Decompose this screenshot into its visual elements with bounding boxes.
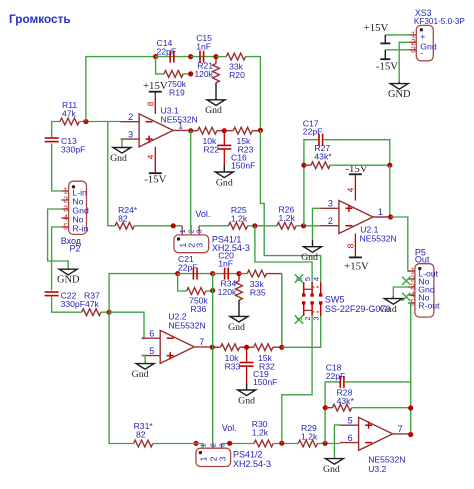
op-amp U3.2 [340,416,410,474]
svg-text:4: 4 [147,154,156,159]
wire U3.1 pin3 to gnd [121,139,123,147]
svg-text:+: + [420,31,425,41]
wire R20 to right bus [246,57,261,131]
svg-text:P2: P2 [70,244,81,254]
junction node S [244,345,249,350]
P2 pin 5 R-in [61,222,88,234]
junction node F [222,128,227,133]
capacitor C17 22pF [303,119,323,146]
junction node R [279,345,284,350]
junction node J [301,223,306,228]
wire node R to SW5 pin3 [282,315,321,347]
XS3 pin 1 + [410,30,426,42]
wire R25 to R26 [248,225,277,227]
junction node A [83,119,88,124]
svg-text:R36: R36 [191,304,207,314]
junction node X [323,405,328,410]
svg-text:47k: 47k [85,299,100,309]
junction node U [227,441,232,446]
wire R28 to right bus [352,407,411,409]
P2 pin 2 No [61,195,83,207]
junction node G [258,128,263,133]
svg-text:GND: GND [57,275,80,286]
capacitor C19 150nF [240,363,278,388]
svg-text:4: 4 [312,277,321,281]
svg-text:+15V: +15V [344,261,369,273]
capacitor C16 150nF [217,145,255,170]
svg-text:GND: GND [388,89,411,100]
svg-text:-15V: -15V [376,61,398,73]
svg-text:3: 3 [128,130,133,140]
svg-text:+15V: +15V [364,22,389,34]
svg-text:1,2k: 1,2k [252,428,269,438]
label XS3 [414,8,466,26]
wire R36 branch left [178,274,187,291]
junction node P [210,271,215,276]
wire R35 wire [239,273,247,275]
power terminal U3.1 -15V [149,172,162,174]
junction node V [279,441,284,446]
svg-text:Out: Out [415,254,430,264]
net +15V U3.1 [143,80,168,92]
PS41/1 pin 1 [178,226,188,248]
wire R21 to gnd [215,83,217,100]
capacitor C22 330pF [45,291,85,310]
svg-text:120k: 120k [194,69,213,79]
P5 pin 1 L-out [408,266,439,279]
capacitor C18 22pF [326,363,346,388]
no-connect P5 pin2 [402,277,410,285]
svg-text:R33: R33 [225,362,241,372]
resistor R37 47k [82,291,101,316]
svg-text:Gnd: Gnd [238,395,255,406]
junction node M [107,310,112,315]
svg-text:8: 8 [147,101,156,106]
PS41/2 pin 1 [199,443,209,461]
svg-text:Vol.: Vol. [222,423,237,433]
PS41/2 pin 3 [217,443,227,461]
ground under R21 [205,100,225,117]
power pin U2.1 pin 8 [347,234,356,258]
svg-text:R-out: R-out [418,300,440,310]
svg-text:1: 1 [199,456,209,461]
svg-text:22pF: 22pF [178,263,198,273]
net label Vol top [195,209,210,219]
label P2 Вход [61,236,82,254]
svg-text:Gnd: Gnd [301,252,318,263]
junction node H [171,223,176,228]
wire fb top right [323,140,390,166]
P2 pin 1 L-in [61,186,87,198]
svg-text:150nF: 150nF [253,377,277,387]
resistor R29 1.2k [298,423,318,447]
capacitor C16 150nF [223,131,225,146]
net -15V U3.1 [144,174,166,186]
svg-text:22pF: 22pF [157,47,177,57]
wire XS3 pin2 to GND [399,42,409,82]
svg-text:Gnd: Gnd [110,153,127,164]
resistor R35 33k [247,270,266,297]
svg-text:1.2k: 1.2k [231,214,248,224]
wire R33 R32 chain [212,346,281,348]
power pin U3.1 pin 8 [147,92,156,114]
svg-text:6: 6 [348,433,353,443]
svg-text:5: 5 [348,416,353,426]
wire C19 to gnd [246,366,248,383]
wire C14 top wire [156,56,191,58]
wire R31 to PS41-2 [153,444,203,449]
svg-text:43k*: 43k* [337,396,355,406]
resistor R19 750k [164,71,187,98]
resistor R25 1.2k [228,205,247,229]
wire XS3 pin1 to +15V [385,34,409,36]
net -15V U2.1 [345,163,367,175]
wire C16 to gnd [223,149,225,166]
svg-text:1: 1 [178,229,187,233]
wire node I to SW5 pin5 [255,226,312,283]
title Громкость [9,12,71,26]
svg-text:NE5532N: NE5532N [168,321,205,331]
svg-text:6: 6 [149,329,154,339]
svg-text:3: 3 [411,45,416,55]
svg-text:3: 3 [195,229,204,233]
svg-text:Gnd: Gnd [132,369,149,380]
wire XS3 pin3 to -15V [385,49,409,51]
connector XS3 body [416,25,433,60]
svg-text:150nF: 150nF [231,161,255,171]
svg-text:R35: R35 [250,288,266,298]
junction node L [387,163,392,168]
wire P2 pin5 to C22 [52,227,62,291]
svg-text:1: 1 [199,443,208,447]
resistor R32 15k [254,344,275,372]
wire C13 to R11 node [52,122,60,138]
wire long Vol bus bottom [212,274,214,449]
net +15V U2.1 [344,261,369,273]
ground U2.1 pin3 [301,240,321,263]
wire R27 to right node [330,164,390,166]
wire P2 pin1 to C13 [52,144,62,192]
junction U2.2 output node [210,345,215,350]
capacitor C13 330pF [45,136,86,155]
wire fb2 top right [344,381,411,383]
XS3 pin 2 Gnd [410,37,437,51]
connector P2 body [69,181,87,234]
junction node O [210,288,215,293]
wire C20 wire [213,273,239,275]
svg-text:XH2.54-3: XH2.54-3 [233,459,271,469]
P5 pin 4 No [408,290,430,303]
wire node G to SW5 pin4 [260,130,320,283]
junction U3.1 output node [188,128,193,133]
wire U2.1 out to P5 pin1 [391,217,415,271]
wire node M down to R31 [109,312,134,443]
junction node Q [236,271,241,276]
connector PS41/1 body [174,235,209,253]
wire R24 to PS41-1 pin1 [134,225,182,227]
junction node W [323,441,328,446]
power pin U3.1 pin 4 [147,147,156,173]
junction node D [188,54,193,59]
PS41/1 pin 3 [195,226,205,248]
label PS41/1 [212,234,250,253]
svg-text:82: 82 [118,214,128,224]
ground U2.2 pin5 [132,364,154,381]
wire U3.2 pin5 to gnd [334,425,340,459]
junction U3.2 output node [408,432,413,437]
svg-text:1nF: 1nF [218,259,233,269]
svg-text:R22: R22 [203,145,219,155]
wire R34 to gnd [238,300,240,316]
svg-text:7: 7 [398,424,403,434]
svg-text:3: 3 [312,316,321,320]
svg-text:43k*: 43k* [314,152,332,162]
ground U3.1 pin3 [110,147,131,164]
wire R22 R23 chain [191,130,261,132]
wire R29 to U3.2 pin6 [317,443,340,445]
junction node Y [408,405,413,410]
svg-text:1.2k: 1.2k [301,432,318,442]
power symbol +15V [364,22,391,43]
svg-text:22pF: 22pF [326,371,346,381]
no-connect SW5 pin6 [295,274,303,282]
svg-text:2: 2 [209,443,218,447]
svg-text:KF301-5.0-3P: KF301-5.0-3P [414,17,466,26]
resistor R23 15k [233,127,253,154]
wire PS41-2 pin3 to R30 [222,443,254,445]
wire R11 to U3.1 pin2 [79,121,120,123]
wire R35 to node R [267,274,282,348]
switch SW5 SS-22F29-G070 [295,277,391,321]
svg-text:SW5: SW5 [325,295,345,305]
op-amp U2.1 [320,199,396,244]
ground P2 gnd [57,269,80,286]
junction node E [213,54,218,59]
PS41/2 pin 2 [209,443,219,461]
svg-text:Громкость: Громкость [9,12,71,26]
wire U3.1 out to pot wiper [190,131,192,235]
resistor R27 43k* [311,143,332,169]
svg-text:Gnd: Gnd [228,322,245,333]
svg-text:47k: 47k [62,109,77,119]
svg-text:1: 1 [378,207,383,217]
net label Vol bottom [222,423,237,433]
svg-text:3: 3 [328,199,333,209]
resistor R11 47k [60,100,79,125]
svg-text:82: 82 [136,430,146,440]
capacitor C14 22pF [157,38,177,63]
svg-text:1nF: 1nF [196,42,211,52]
resistor R34 120k [218,274,243,301]
svg-text:2: 2 [128,112,133,122]
ground XS3 gnd [388,82,411,100]
svg-text:330pF: 330pF [61,299,85,309]
no-connect SW5 pin1 [295,315,303,323]
svg-text:NE5532N: NE5532N [360,234,397,244]
power terminal U2.1 +15V [349,256,362,258]
svg-text:-: - [420,48,423,58]
junction U2.1 output node [388,214,393,219]
wire fb left riser [304,140,319,226]
junction node K [301,163,306,168]
svg-text:3: 3 [195,243,205,248]
svg-text:R-in: R-in [72,224,88,234]
wire node V to SW5 pin2 [282,315,312,443]
svg-text:22pF: 22pF [303,127,323,137]
wire R28 stub [325,407,332,409]
ground P5 gnd [380,297,402,315]
ground U3.2 pin5 [323,459,343,476]
wire C21 wire [178,273,213,275]
svg-text:3: 3 [217,456,227,461]
wire PS41-1 pin3 to R25 [199,225,228,227]
wire C15 wire [191,56,216,58]
connector P5 body [415,264,434,317]
svg-text:7: 7 [199,337,204,347]
svg-text:R20: R20 [229,70,245,80]
P5 pin 3 Gnd [408,282,435,295]
wire feedback riser A [86,57,156,122]
svg-text:4: 4 [347,187,356,192]
resistor R36 750k [187,288,209,314]
power symbol -15V [376,50,398,73]
no-connect P5 pin4 [402,293,410,301]
junction node I [252,223,257,228]
svg-text:330pF: 330pF [61,145,85,155]
ground under R34 [228,316,248,333]
resistor R28 43k* [333,388,355,412]
wire U2.1 pin3 to gnd [313,208,321,239]
ground under C19 [238,384,256,407]
resistor R21 120k [194,57,219,83]
wire fb right riser [389,165,391,217]
wire R30 to R29 [273,443,298,445]
resistor R30 1.2k [252,419,273,447]
wire P2 pin3 to GND [48,209,69,269]
wire R19 branch right [183,73,191,75]
P5 pin 5 R-out [408,298,440,311]
svg-text:Gnd: Gnd [216,177,233,188]
resistor R26 1.2k [277,205,296,230]
PS41/1 pin 2 [187,226,197,248]
svg-text:SS-22F29-G070: SS-22F29-G070 [325,304,391,314]
resistor R31* 82 [134,421,154,447]
svg-text:120k: 120k [218,287,237,297]
junction node C [188,71,193,76]
label P5 Out [415,247,430,264]
svg-text:-15V: -15V [144,174,166,186]
svg-text:PS41/2: PS41/2 [233,450,263,460]
svg-text:5: 5 [149,346,154,356]
capacitor C15 1nF [196,33,212,63]
op-amp U2.2 [142,312,212,364]
svg-text:NE5532N: NE5532N [161,115,198,125]
wire R37 to node M [101,311,109,313]
power terminal U3.1 +15V [149,91,162,93]
svg-text:8: 8 [347,243,356,248]
svg-text:U3.2: U3.2 [368,464,386,474]
power pin U2.1 pin 4 [347,174,356,200]
op-amp U3.1 [121,106,198,147]
svg-text:5: 5 [63,222,68,232]
svg-text:Vol.: Vol. [195,209,210,219]
P2 pin 4 No [61,213,83,225]
XS3 pin 3 - [410,45,424,58]
svg-text:NE5532N: NE5532N [368,455,405,465]
svg-text:+15V: +15V [143,80,168,92]
svg-text:R19: R19 [169,88,185,98]
wire R20 wire [216,56,226,58]
label PS41/2 [233,450,271,470]
wire R19 branch left [156,57,164,74]
capacitor C21 22pF [178,254,198,280]
wire R36 branch right [206,290,213,292]
wire P5 pin5 down bus [408,303,411,435]
P5 pin 2 No [408,274,430,287]
junction node T [193,441,198,446]
svg-text:Gnd: Gnd [205,105,222,116]
wire node M up bus [109,274,178,313]
ground under C16 [215,166,233,189]
svg-text:Gnd: Gnd [323,464,340,475]
wire U2.2 pin5 to gnd [142,355,146,363]
junction node B [153,54,158,59]
power terminal U2.1 -15V [349,173,362,175]
connector PS41/2 body [196,448,231,466]
capacitor C19 150nF [246,347,248,362]
junction node N [175,271,180,276]
resistor R24* 82 [115,205,138,229]
resistor R22 10k [198,127,220,154]
wire fb2 left riser [325,382,340,443]
wire P5 pin3 to gnd [393,287,408,297]
wire pin2 node to R24 [108,122,115,226]
svg-text:1.2k: 1.2k [279,213,296,223]
svg-text:2: 2 [328,216,333,226]
P2 pin 3 Gnd [61,204,89,216]
wire R27 stubs [304,164,311,166]
capacitor C20 1nF [218,251,234,280]
wire C22 to R37 [52,296,82,313]
resistor R33 10k [221,344,241,372]
resistor R20 33k [226,53,245,80]
wire node M to U2.2 pin6 [109,312,144,338]
wire R26 to U2.1 pin2 [296,225,320,227]
